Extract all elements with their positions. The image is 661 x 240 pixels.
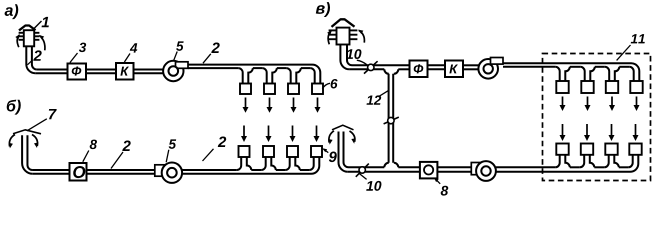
label 10 with leader (bottom) <box>359 174 381 191</box>
label 8 with leader <box>83 140 97 162</box>
exhaust grille square 3 (system б) <box>287 146 298 157</box>
label 7 with leader <box>27 109 57 131</box>
discharge arrow right of stack <box>350 131 357 144</box>
damper 10 (bottom) <box>356 164 369 177</box>
exhaust grille square 1 (system б) <box>239 146 250 157</box>
duct bend to damper (в top) <box>349 65 409 69</box>
air intake cowl 1 <box>19 26 40 47</box>
supply square 4 (system в) <box>630 81 642 93</box>
exhaust air arrow 3 (в) <box>609 124 615 141</box>
fan (в top) <box>478 58 503 79</box>
exhaust grille square 4 (в) <box>629 144 641 155</box>
filter box 3 (Ф) <box>68 64 87 80</box>
duct between cleaner and fan (б) <box>87 170 156 174</box>
supply air arrow 4 (system а) <box>315 98 321 113</box>
label 1 with leader <box>33 17 49 29</box>
exhaust arrow left of stack 7 <box>8 135 15 149</box>
intake arrow right of cowl 1 <box>38 33 45 50</box>
supply duct with drop branches (system в) <box>503 63 639 81</box>
recirculation pipe 12 <box>389 74 394 163</box>
duct bend below cowl 1 <box>26 46 37 73</box>
air distributor square 4 (system а) <box>312 84 323 95</box>
exhaust stack 7 roof <box>13 130 41 134</box>
duct between filter and heater <box>86 70 116 74</box>
duct stack to T-junction (в bottom) <box>348 167 420 172</box>
exhaust arrow right of stack 7 <box>32 135 39 149</box>
label 8 with leader (в) <box>433 176 449 195</box>
air distributor square 3 (system а) <box>288 84 299 95</box>
label б) <box>7 100 21 115</box>
label 6 with leader <box>322 79 337 89</box>
label в) <box>316 2 330 17</box>
supply air arrow 1 (system а) <box>243 98 249 113</box>
duct T to cleaner 8 (в bottom) <box>398 166 420 168</box>
exhaust grille square 3 (в) <box>605 144 617 155</box>
supply square 3 (system в) <box>606 81 618 93</box>
exhaust grille square 1 (в) <box>556 144 568 155</box>
heater box 4 (К) <box>116 63 134 80</box>
duct heater to fan (в) <box>463 65 479 69</box>
supply air arrow 2 (system в) <box>585 97 591 112</box>
exhaust air arrow 3 (system б) <box>290 126 296 143</box>
label 2 with leader (б left) <box>111 141 131 169</box>
cleaner box 8 (О) <box>70 163 87 181</box>
T-junction top of pipe 12 <box>384 69 398 74</box>
duct between heater and fan <box>134 70 165 74</box>
stack 7 pipe bend into duct <box>22 135 33 174</box>
T-junction bottom of pipe 12 <box>384 163 398 168</box>
exhaust air arrow 4 (в) <box>633 124 639 141</box>
duct filter to heater (в) <box>428 65 446 69</box>
duct 2 to filter <box>35 70 67 74</box>
exhaust grille square 4 (system б) <box>311 146 322 157</box>
exhaust air arrow 4 (system б) <box>314 126 320 143</box>
supply air arrow 4 (system в) <box>634 97 640 112</box>
label 9 with leader arrow <box>321 147 336 162</box>
exhaust air arrow 1 (в) <box>560 124 566 141</box>
heater box К (в) <box>445 61 463 78</box>
label 12 with leader <box>367 90 389 104</box>
exhaust air arrow 2 (в) <box>584 124 590 141</box>
discharge arrow left of stack <box>328 131 334 145</box>
filter box Ф (в) <box>410 61 428 78</box>
fan 5 (б) <box>155 163 182 183</box>
supply square 1 (system в) <box>556 81 568 93</box>
damper 10 (top) <box>364 61 378 73</box>
cowl pipe bend (в) <box>340 45 352 70</box>
supply air arrow 1 (system в) <box>560 97 566 112</box>
exhaust duct with riser branches (system б) <box>182 157 319 174</box>
air distributor square 1 (system а) <box>240 84 251 95</box>
fan 5 <box>163 61 188 81</box>
intake arrow right of cowl (в) <box>357 28 365 43</box>
cleaner box 8 (в) <box>420 162 438 179</box>
discharge stack roof <box>332 125 354 130</box>
label 3 with leader <box>70 43 86 63</box>
label 5 with leader <box>174 41 184 60</box>
exhaust grille square 2 (system б) <box>263 146 274 157</box>
air distributor square 2 (system а) <box>264 84 275 95</box>
label 2 on duct bend <box>27 50 41 64</box>
label 2 with leader (б right) <box>203 137 227 161</box>
exhaust air arrow 1 (system б) <box>241 126 247 143</box>
duct cleaner to fan (в bottom) <box>437 167 471 172</box>
dashed room boundary 11 <box>543 54 651 181</box>
air intake cowl (в) <box>329 19 358 44</box>
label 11 with leader <box>617 34 645 60</box>
intake arrow left of cowl (в) <box>327 29 333 45</box>
label 10 with leader (top) <box>346 49 367 65</box>
label 2 after fan with leader <box>203 43 220 64</box>
supply air arrow 3 (system а) <box>291 98 297 113</box>
supply air arrow 2 (system а) <box>267 98 273 113</box>
intake arrow left of cowl 1 <box>15 33 21 47</box>
supply air arrow 3 (system в) <box>609 97 615 112</box>
exhaust grille square 2 (в) <box>581 144 593 155</box>
fan (в bottom) <box>471 161 496 181</box>
exhaust air arrow 2 (system б) <box>266 126 272 143</box>
label а) <box>5 4 19 19</box>
discharge stack pipe bend <box>339 132 349 172</box>
label 5 with leader (б) <box>166 139 176 162</box>
duct T to filter (в top) <box>398 68 409 70</box>
label 4 with leader <box>124 43 137 62</box>
supply duct with drop branches (system а) <box>188 65 320 84</box>
duct 2 stack to cleaner <box>32 170 69 174</box>
supply square 2 (system в) <box>581 81 593 93</box>
exhaust duct with riser branches (в bottom) <box>496 155 638 172</box>
damper on pipe 12 <box>384 117 399 124</box>
